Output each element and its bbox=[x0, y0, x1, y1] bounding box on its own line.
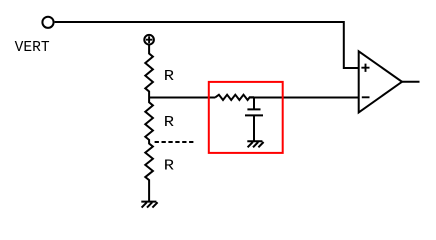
svg-text:R: R bbox=[164, 159, 175, 175]
svg-text:R: R bbox=[164, 69, 175, 85]
svg-text:R: R bbox=[164, 115, 175, 131]
svg-text:VERT: VERT bbox=[15, 40, 50, 56]
